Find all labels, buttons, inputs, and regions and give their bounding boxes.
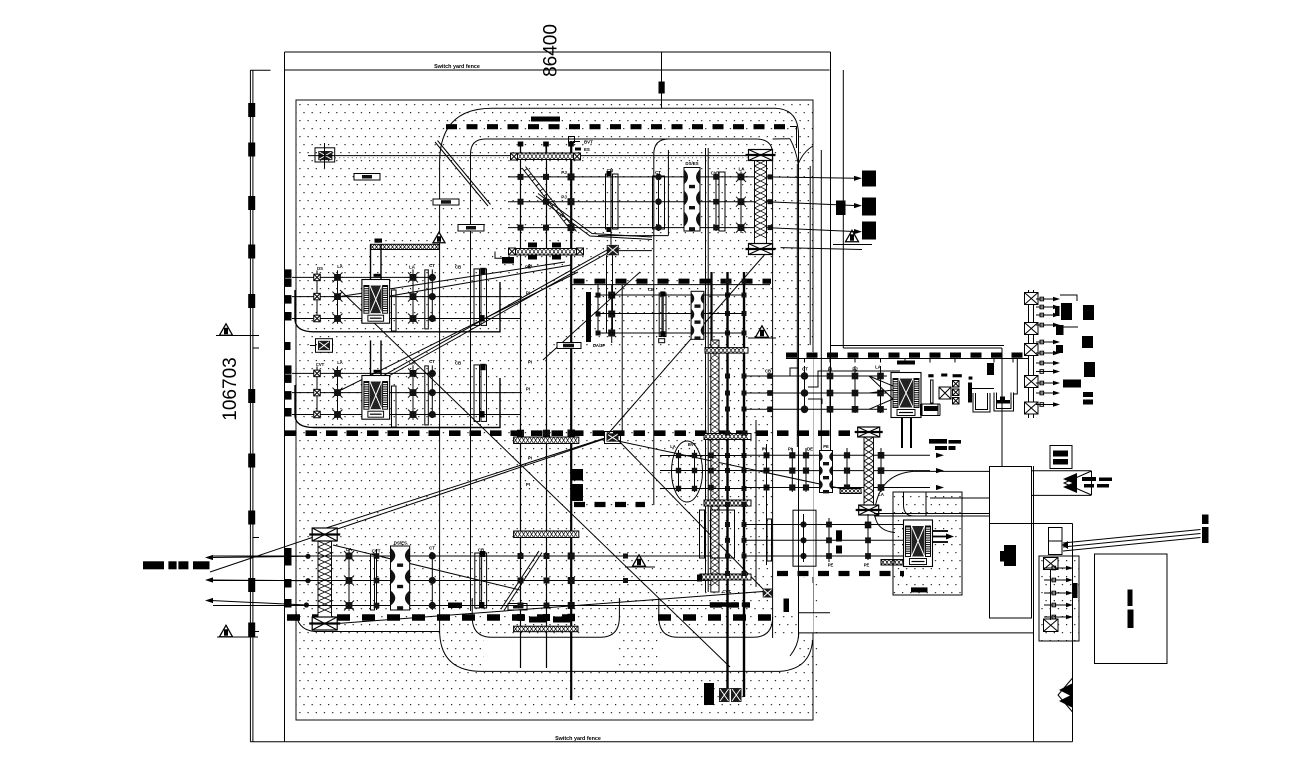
black square below tower [865, 522, 872, 529]
svg-text:PJ: PJ [561, 170, 567, 175]
dimension line 86400 top [285, 51, 831, 53]
svg-text:CVT: CVT [722, 589, 731, 594]
gantry G1 top bay [514, 153, 577, 160]
svg-text:Switch yard fence: Switch yard fence [434, 64, 480, 70]
T2 black bars [836, 530, 842, 541]
disconnector petals lower 33kV [820, 451, 833, 494]
black seat [924, 406, 938, 411]
narrow frame right of transformer [392, 290, 397, 331]
feeder strip blobs [1061, 303, 1072, 320]
warning triangle top mid [433, 232, 445, 243]
busbar A top 132kV [446, 124, 792, 129]
feeder strip F1 arrows [1036, 298, 1053, 300]
wire ramp upper left [435, 141, 491, 207]
building 1 door blob [1004, 545, 1016, 566]
svg-text:DS/ES.: DS/ES. [394, 541, 408, 546]
svg-text:LA: LA [409, 360, 416, 365]
svg-text:DA/3P: DA/3P [593, 343, 606, 348]
gantry tower black 3 [862, 222, 876, 240]
transformer [362, 280, 390, 324]
incoming line towers [1202, 515, 1209, 525]
wire to node C [618, 440, 763, 589]
transformer T2 [904, 520, 933, 567]
disconnector crossed box [939, 387, 951, 399]
feeder arrow left 3 [205, 598, 213, 603]
wall line from node A [308, 155, 755, 157]
middle column thin pair [705, 148, 707, 592]
wire long to node B [210, 439, 604, 572]
mid bay column x598 [597, 285, 599, 333]
left boundary ticks [253, 347, 259, 349]
busbar M middle [574, 279, 772, 284]
road bay3 bottom left curve [296, 610, 440, 632]
junction squares bay3 [518, 553, 524, 559]
column line x546 [546, 143, 548, 668]
column line x571 heavy [570, 141, 572, 700]
transformer top pipes [370, 244, 372, 279]
middle gantries [705, 348, 748, 354]
circuit row 2 top bay [508, 201, 755, 203]
thin frame CB bay [425, 270, 429, 329]
gravel strip bottom right [813, 582, 819, 720]
fence right verticals [830, 52, 832, 450]
svg-text:CT: CT [802, 367, 808, 372]
svg-text:DE: DE [807, 446, 813, 451]
warning triangle left lower [220, 625, 233, 636]
small tower mark [836, 201, 846, 216]
svg-text:PE: PE [828, 563, 834, 568]
feeder strip F1 crossed boxes [1025, 293, 1039, 305]
svg-text:LA: LA [337, 360, 343, 365]
control building 1 [990, 467, 1032, 619]
mid bay rows [598, 294, 744, 296]
wire tower to node C long [331, 592, 763, 625]
fence posts bay [285, 269, 292, 278]
svg-text:CT: CT [429, 359, 435, 364]
fence tick line top [661, 52, 663, 108]
vertical road line x1033 [1033, 466, 1035, 742]
structure lines right of tower [874, 513, 990, 515]
gantry left of tower [840, 489, 861, 494]
svg-text:LA: LA [878, 492, 885, 497]
wire diagonal D to TR2 [381, 250, 607, 377]
fence posts bottom bay [285, 548, 292, 557]
T2 right arrows [933, 530, 949, 532]
svg-text:PI: PI [528, 456, 532, 461]
wire top tower diagonal [607, 253, 766, 435]
T2 pad inner road curve [904, 492, 927, 516]
arrester column LA 2 [412, 269, 414, 320]
road inner top segment 2 [654, 139, 669, 505]
busbar E 33kV lower [777, 571, 904, 576]
label small box [569, 137, 575, 143]
road U-channel 1 [472, 598, 619, 637]
T1 pipes down [901, 418, 903, 449]
gantry below tower [881, 560, 927, 566]
busbar B center [285, 430, 878, 436]
gantry G8 below bus C [514, 626, 578, 632]
road bay2 enclosure [295, 378, 500, 428]
black blob below G7 [572, 469, 584, 481]
node E crossed box left mid [316, 339, 333, 353]
svg-text:DS: DS [317, 266, 323, 271]
ellipse bay rows [660, 455, 744, 457]
mid black dash pair below [710, 602, 727, 607]
feeder junction dots [305, 554, 310, 559]
right yard fence top lines [831, 345, 1005, 347]
circuit rows bottom bay [213, 555, 711, 557]
links to switchgear [972, 388, 994, 390]
tower top bay lattice [755, 160, 767, 244]
structure line below bus D [786, 358, 1028, 360]
black table bars 33kV [929, 439, 947, 444]
gantry G7 bay3 [514, 437, 579, 444]
wire fan 2 [341, 272, 578, 390]
feeder arrow left 2 [205, 577, 213, 582]
fence posts bay [285, 365, 292, 374]
fence mark near node E [285, 342, 291, 350]
CT column [431, 365, 433, 416]
column right structures [755, 420, 757, 587]
svg-text:PE: PE [864, 563, 870, 568]
node B crossed box center [605, 432, 621, 444]
routing polylines 33kV [790, 368, 798, 376]
black bar near switchroom [987, 363, 994, 375]
svg-text:86400: 86400 [541, 24, 562, 77]
warning triangle bottom mid [633, 555, 646, 566]
property boundary left double line [249, 70, 251, 742]
annotation bars right of gate [1082, 477, 1096, 481]
stacked junction boxes [1049, 528, 1063, 542]
T1 fan wires [869, 376, 893, 386]
road bay1 enclosure [295, 282, 500, 332]
svg-text:106703: 106703 [220, 357, 241, 420]
middle column heavy vertical 2 [743, 272, 745, 697]
svg-text:CT: CT [429, 263, 435, 268]
tower 33kV [864, 437, 874, 506]
switch yard fence top line [285, 69, 830, 71]
warning triangle left upper [220, 324, 233, 335]
small marks on rows at column 620 [623, 554, 628, 559]
busbar G stubs [710, 602, 750, 607]
arrester column LA 2 [412, 365, 414, 416]
thin frame CB bay [425, 366, 429, 425]
road curve near T2 [875, 471, 914, 513]
mid bay CB [659, 293, 662, 337]
incoming 3 lines diagonal [1063, 530, 1201, 544]
wire bay3 diagonal [333, 545, 520, 590]
svg-text:CB: CB [765, 369, 771, 374]
big black bar mid bay [586, 292, 591, 342]
road U-channel 2 [659, 598, 773, 637]
33kV lower rows [744, 454, 930, 456]
svg-text:PI: PI [528, 360, 532, 365]
road exit right lines [799, 612, 830, 614]
svg-text:PI: PI [526, 291, 530, 296]
row arrows right [936, 453, 944, 458]
narrow frame right of transformer [392, 386, 397, 427]
tree symbol bottom right [1058, 678, 1073, 712]
svg-text:LA: LA [738, 167, 745, 172]
T1 side links [921, 404, 941, 416]
gate symbol right [1064, 471, 1092, 495]
road top-left curve [440, 108, 799, 638]
svg-text:PE: PE [823, 444, 829, 449]
building top lines right [1032, 470, 1092, 472]
svg-text:ES: ES [584, 147, 590, 152]
svg-text:CB: CB [455, 360, 461, 365]
vertical line x622 [621, 285, 623, 433]
bar 503 [502, 257, 514, 264]
circuit breaker CB [474, 269, 480, 326]
black bar right of bus G [784, 599, 790, 613]
node C crossed box [763, 589, 773, 598]
svg-text:CB: CB [455, 264, 461, 269]
33kV upper rows [744, 375, 887, 377]
outgoing feeder dashed mark left [143, 561, 164, 569]
road edge x821 outside [820, 150, 822, 450]
road bottom edge top bay [598, 235, 668, 237]
circuit rows transformer bay [292, 372, 436, 374]
svg-text:PI: PI [788, 446, 792, 451]
column line x520 [520, 143, 522, 668]
junction squares at tower [768, 174, 773, 179]
U-duct right [994, 393, 1014, 412]
T2 sq columns [828, 518, 830, 562]
node D crossed box [607, 245, 619, 255]
svg-text:LA: LA [337, 264, 343, 269]
horizontal line y523 [990, 523, 1073, 525]
road line y139 extension [773, 138, 790, 140]
busbar F short [574, 502, 645, 507]
T2 gravel pad [893, 492, 962, 595]
fence posts left boundary [248, 103, 255, 117]
road edge double below junction [796, 164, 798, 447]
label bar above T1 [897, 361, 915, 365]
warning triangle mid right [756, 326, 769, 337]
ramp diagonal bay3 [501, 551, 542, 611]
line under towers [781, 248, 863, 250]
equipment box with bars [1050, 446, 1072, 469]
oval equipment group [672, 441, 703, 502]
middle lattice tower [711, 340, 719, 592]
ramp diagonal top bay [522, 167, 577, 234]
gantry G2 top bay lower [512, 249, 580, 256]
transformer T1 33kV [891, 373, 921, 418]
node A crossed box top-left [315, 148, 335, 162]
coupling duct [931, 380, 933, 403]
transformer top pipes [370, 340, 372, 375]
ramp slider symbols [458, 225, 484, 232]
small black marks above coupling [928, 374, 933, 377]
circuit breaker CB [474, 365, 480, 422]
svg-text:CB: CB [648, 287, 654, 292]
gravel area main yard [296, 100, 813, 720]
road cutout vertical [774, 352, 813, 577]
road edge x668 [667, 150, 669, 236]
heavy bar label top [531, 117, 560, 122]
circuit row 3 top bay [508, 227, 755, 229]
transformer [362, 376, 390, 420]
dark pill slider [557, 343, 581, 349]
arrester column LA [337, 270, 339, 320]
F2 crossed boxes [1044, 558, 1059, 570]
svg-text:BVT: BVT [688, 442, 697, 447]
mid bay DS petals [691, 291, 704, 340]
busbar D 33kV top [786, 353, 1028, 358]
arrester column LA [337, 366, 339, 416]
F2 right bar [1073, 583, 1078, 598]
wire mid diagonal [543, 272, 640, 360]
gantry G1 stubs [520, 143, 522, 153]
warning triangle right yard [846, 230, 859, 241]
PE column [846, 448, 848, 492]
svg-text:BVT: BVT [584, 140, 593, 145]
vertical road line x1072 [1072, 524, 1074, 742]
svg-text:LA: LA [670, 444, 676, 449]
feeder arrow left 1 [205, 555, 213, 560]
black bar coupling [968, 383, 972, 403]
wire LA to bottom [340, 290, 730, 667]
road inner top main [471, 139, 773, 638]
T2 rows [744, 524, 903, 526]
wire fan 3 [337, 262, 565, 297]
svg-text:PI: PI [762, 447, 766, 452]
building 2 bars [1128, 590, 1133, 607]
bus junction marks [517, 430, 524, 437]
road edge x810 [809, 166, 811, 345]
tower bottom-left bay [318, 541, 332, 617]
F2 arrows [1044, 567, 1066, 569]
road cutout bottom [484, 639, 618, 671]
mid bay column x611 [611, 285, 613, 343]
wire fan 1 [390, 265, 571, 296]
left boundary top tick [250, 69, 270, 71]
middle column heavy vertical 1 [726, 272, 728, 697]
row junction symbols [518, 174, 524, 180]
structure line below bus M [572, 284, 770, 286]
circuit rows transformer bay [292, 276, 436, 278]
svg-text:PI: PI [526, 482, 530, 487]
feeder pad F2 [1039, 556, 1079, 641]
svg-text:DS/ES: DS/ES [685, 161, 698, 166]
wire tower to node B [320, 438, 605, 530]
middle column bottom cluster [719, 688, 730, 702]
middle column junction marks [725, 279, 730, 284]
LA column right of tower [880, 448, 882, 492]
feeder lines to gantry towers [767, 177, 858, 178]
svg-text:PI: PI [528, 264, 532, 269]
T2 pad bottom bar [911, 587, 928, 592]
svg-text:Switch yard fence: Switch yard fence [555, 736, 601, 742]
road junction arcs top right [790, 139, 798, 164]
gantry tower black 1 [862, 171, 876, 187]
gantry G3 [371, 244, 440, 249]
svg-text:LA: LA [409, 264, 416, 269]
svg-text:CVT: CVT [316, 362, 325, 367]
svg-text:CT: CT [429, 546, 435, 551]
disconnector column 1 [316, 366, 318, 416]
road left vertical outer [440, 163, 813, 671]
insulator stack [953, 381, 960, 388]
circuit row 1 top bay [508, 176, 755, 178]
control building 2 [1095, 554, 1168, 664]
node D down pair [606, 255, 608, 333]
feeder strip F1 vertical lines [1028, 290, 1030, 418]
bracket lines F1 [1060, 295, 1077, 301]
F2 vertical [1050, 569, 1052, 620]
gantry G6 bay3 [514, 531, 579, 538]
wire node B to tower 33kV [618, 441, 862, 493]
middle column heavy vertical 3 [710, 272, 712, 350]
svg-text:PJ: PJ [561, 195, 567, 200]
disconnector column 1 [316, 270, 318, 320]
fence left vertical [284, 52, 286, 742]
fence bottom line [250, 741, 1072, 743]
busbar C lower [287, 614, 576, 620]
svg-text:PI: PI [526, 387, 530, 392]
T2 box outline [793, 510, 816, 566]
CT column [431, 269, 433, 320]
gantry tower black 2 [862, 198, 876, 216]
